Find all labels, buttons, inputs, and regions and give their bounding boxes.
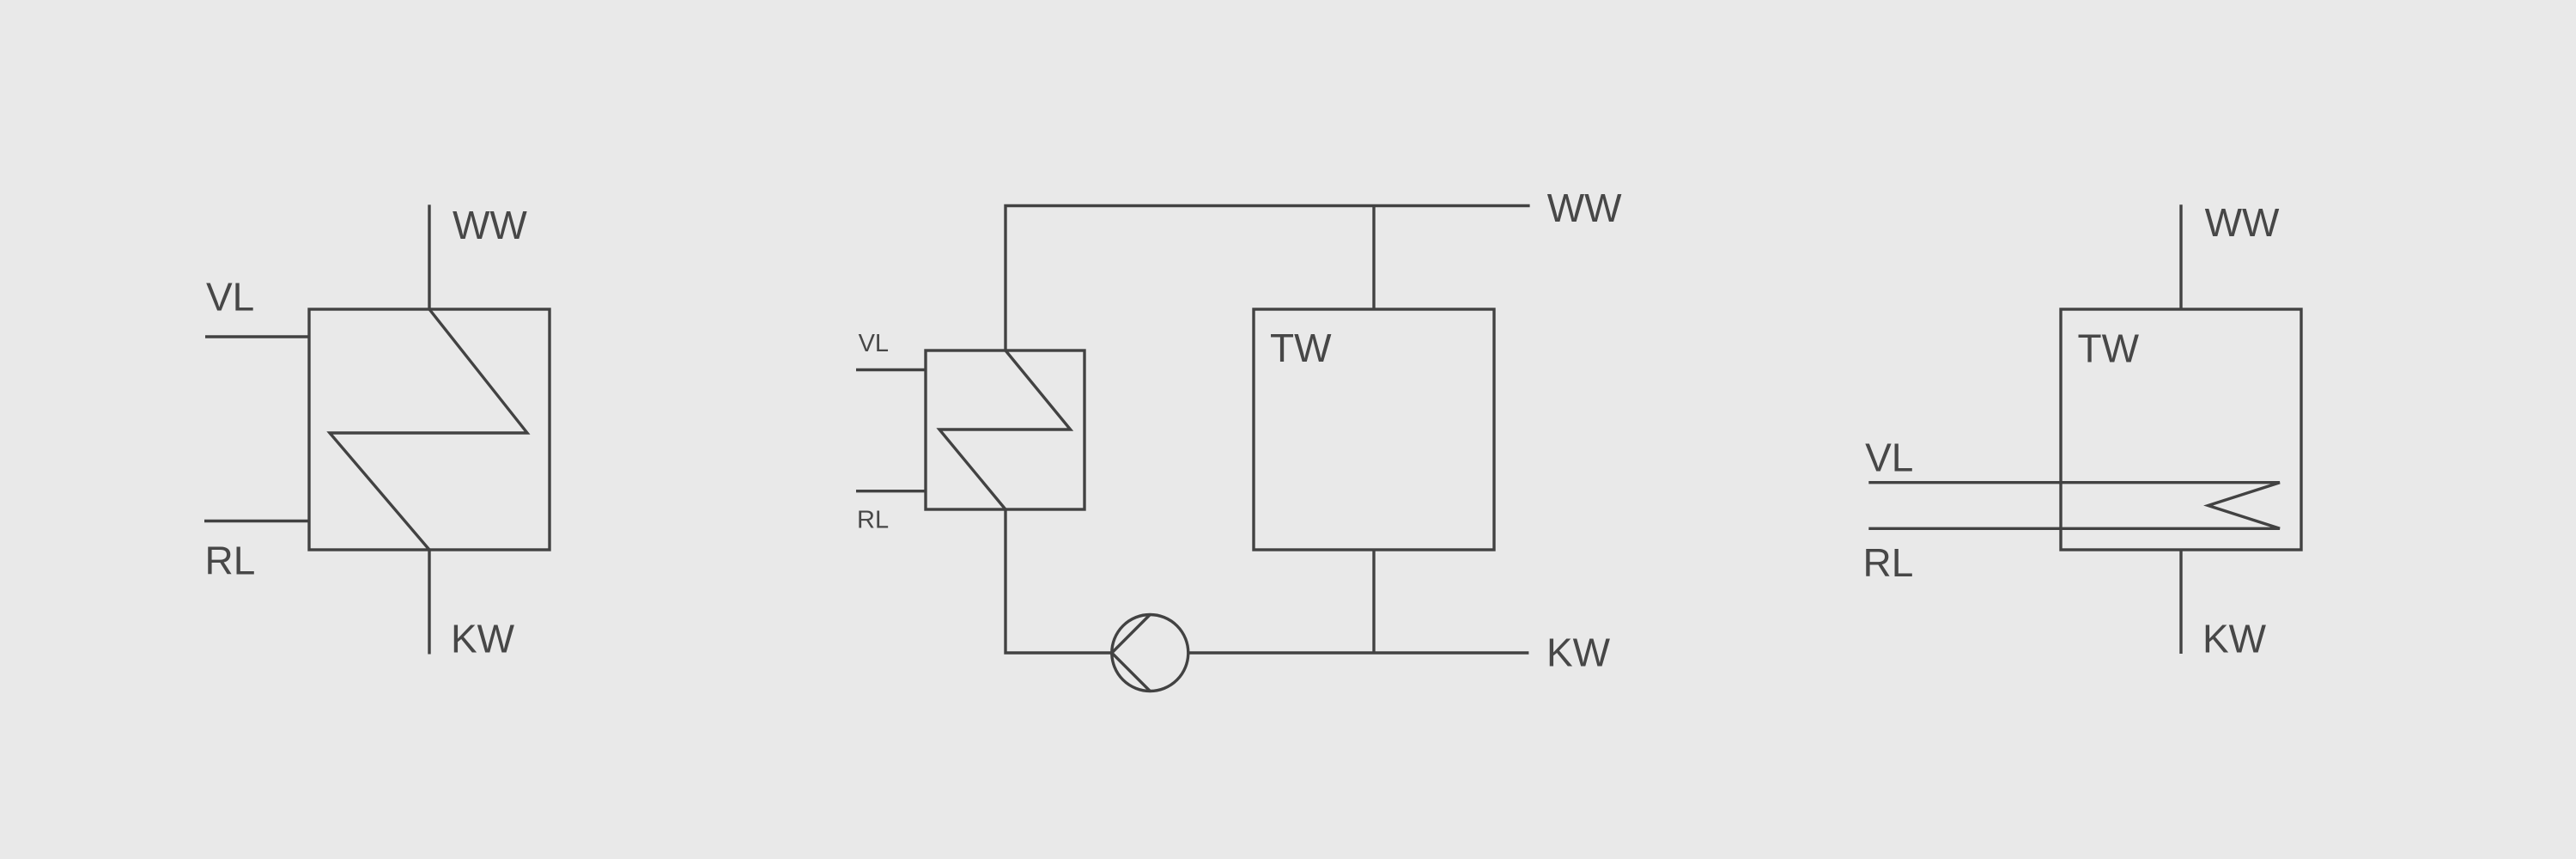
svg-text:KW: KW xyxy=(2202,616,2267,661)
wire KW drop (left diagram) xyxy=(428,550,430,655)
pump P1 circle xyxy=(1112,615,1188,691)
svg-text:RL: RL xyxy=(857,507,889,534)
wire KW drop (right diagram) xyxy=(2179,550,2182,654)
heat exchanger W2 zigzag xyxy=(939,350,1071,509)
wire RL stub (middle diagram) xyxy=(856,490,926,492)
svg-text:KW: KW xyxy=(451,616,515,661)
heating coil VL-RL hairpin (right diagram) xyxy=(1868,483,2280,529)
svg-text:VL: VL xyxy=(859,330,889,357)
wire tank bottom connection (middle diagram) xyxy=(1372,550,1375,653)
pump P1 triangle chords xyxy=(1112,615,1151,691)
svg-text:RL: RL xyxy=(1863,540,1914,585)
svg-text:VL: VL xyxy=(206,275,254,320)
svg-text:VL: VL xyxy=(1865,436,1913,480)
storage tank TW (right diagram) body xyxy=(2061,309,2301,550)
svg-text:WW: WW xyxy=(453,203,527,247)
wire tank top connection (middle diagram) xyxy=(1372,206,1375,310)
wire drop from exchanger W2 and pump run left segment xyxy=(1005,509,1112,653)
svg-text:RL: RL xyxy=(205,539,256,583)
svg-text:WW: WW xyxy=(2205,200,2280,245)
svg-text:WW: WW xyxy=(1547,186,1622,230)
storage tank TW (middle diagram) body xyxy=(1254,309,1494,550)
wire RL stub (left diagram) xyxy=(204,520,309,522)
heat exchanger W2 body xyxy=(926,350,1084,509)
wire WW riser (left diagram) xyxy=(428,204,430,309)
svg-text:KW: KW xyxy=(1546,630,1611,674)
svg-text:TW: TW xyxy=(2078,326,2140,370)
wire VL stub (middle diagram) xyxy=(856,369,926,371)
wire WW top run (middle diagram) xyxy=(1005,206,1530,351)
wire VL stub (left diagram) xyxy=(205,335,309,338)
heat exchanger W1 zigzag xyxy=(330,309,527,550)
svg-text:TW: TW xyxy=(1270,326,1332,370)
wire WW riser (right diagram) xyxy=(2179,204,2182,309)
wire pump run right segment xyxy=(1188,651,1529,654)
heat exchanger W1 body xyxy=(309,309,550,550)
